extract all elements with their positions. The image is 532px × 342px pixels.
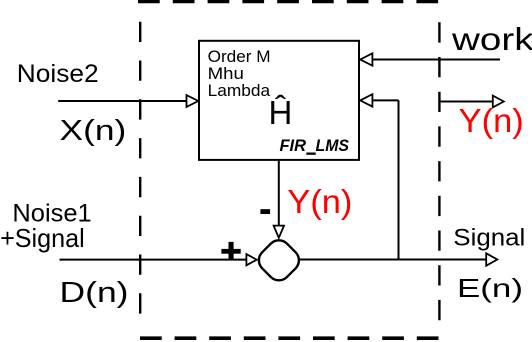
- svg-text:E(n): E(n): [457, 273, 523, 303]
- svg-text:Y(n): Y(n): [287, 183, 352, 220]
- svg-text:+Signal: +Signal: [0, 223, 85, 253]
- svg-text:D(n): D(n): [60, 277, 129, 309]
- svg-text:X(n): X(n): [60, 115, 127, 147]
- svg-text:work: work: [451, 21, 532, 57]
- svg-text:Noise2: Noise2: [17, 60, 99, 88]
- svg-text:LMS: LMS: [316, 136, 350, 155]
- svg-text:Signal: Signal: [453, 225, 525, 252]
- svg-text:FIR: FIR: [280, 136, 307, 155]
- svg-text:Y(n): Y(n): [459, 102, 524, 139]
- svg-text:Lambda: Lambda: [208, 81, 271, 100]
- svg-text:Ĥ: Ĥ: [269, 94, 293, 131]
